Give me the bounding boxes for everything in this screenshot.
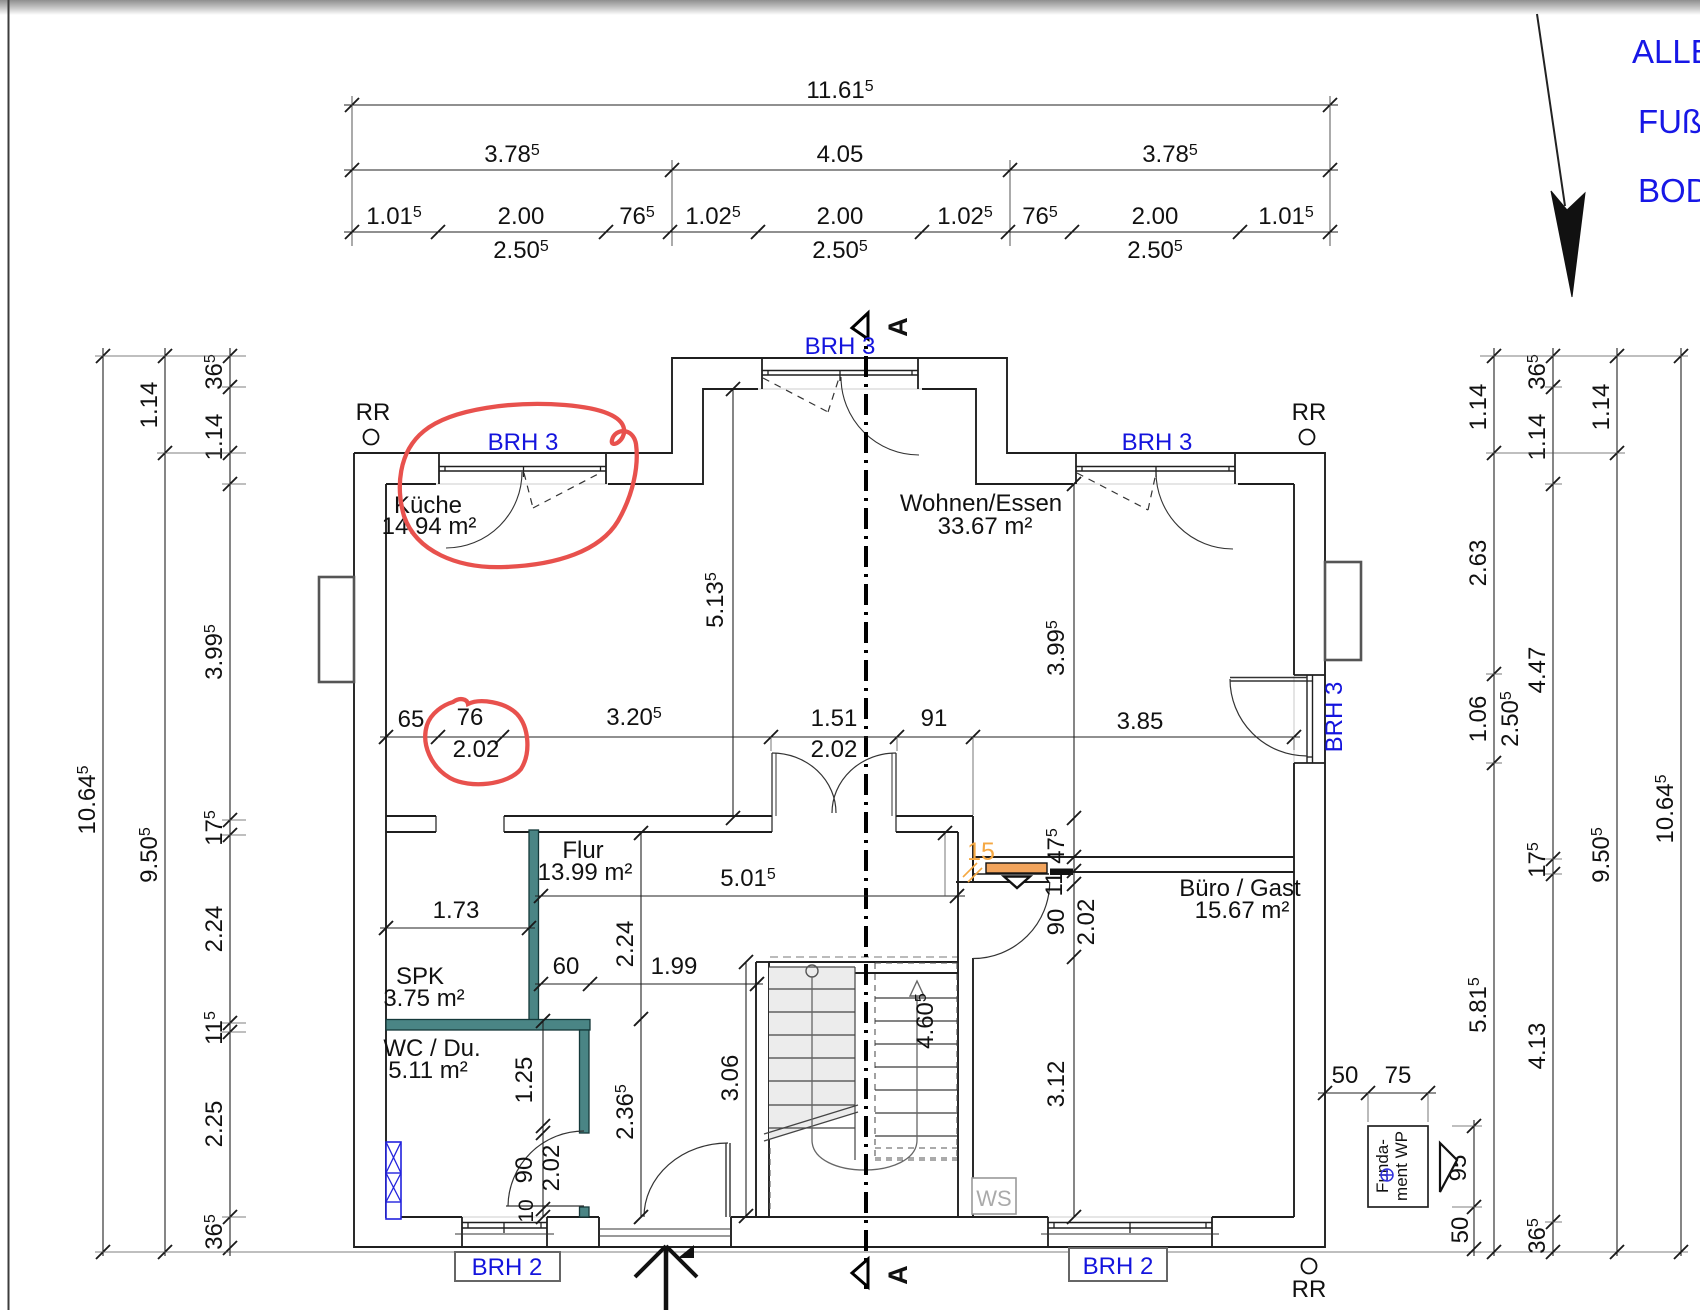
big north-ish arrow top right bbox=[1537, 14, 1565, 206]
WC door leaf + arc bbox=[506, 1205, 584, 1207]
inner face bottom wall segments bbox=[547, 1216, 599, 1218]
entrance threshold bbox=[598, 1217, 600, 1247]
svg-text:90: 90 bbox=[1043, 909, 1070, 936]
bay window tilt dashes bbox=[763, 378, 828, 412]
blue hatched element (radiator) bottom left bbox=[386, 1142, 401, 1219]
svg-text:BRH 3: BRH 3 bbox=[488, 429, 559, 456]
svg-text:65: 65 bbox=[398, 706, 425, 733]
svg-text:50: 50 bbox=[1447, 1217, 1474, 1244]
svg-text:1.99: 1.99 bbox=[651, 953, 698, 980]
svg-text:10.645: 10.645 bbox=[1652, 774, 1679, 843]
extension lines top bbox=[351, 96, 353, 246]
svg-text:75: 75 bbox=[1385, 1062, 1412, 1089]
dashed headroom line at stair top bbox=[770, 956, 957, 958]
top dimension chain row 2: 3.785 / 4.05 / 3.785 bbox=[344, 169, 1338, 171]
page left edge line bbox=[8, 0, 10, 1310]
label BRH2 right with box bbox=[1069, 1248, 1167, 1281]
svg-text:1.73: 1.73 bbox=[433, 897, 480, 924]
right chain F: 1.14/9.505 bbox=[1616, 348, 1618, 1256]
left extension stubs bbox=[95, 355, 246, 357]
svg-text:4.13: 4.13 bbox=[1524, 1023, 1551, 1070]
orange new wall bar bbox=[986, 863, 1047, 873]
svg-text:2.02: 2.02 bbox=[1073, 899, 1100, 946]
svg-text:BRH 2: BRH 2 bbox=[1083, 1253, 1154, 1280]
stair top wall bbox=[769, 961, 958, 963]
svg-text:2.00: 2.00 bbox=[1132, 203, 1179, 230]
foundation WP box bbox=[1368, 1126, 1428, 1207]
faint reveal lines across window openings bbox=[436, 483, 608, 485]
buero door leaf + arc (from hall) bbox=[956, 881, 1049, 883]
bay window turn arc bbox=[841, 377, 919, 455]
svg-text:13.99 m²: 13.99 m² bbox=[538, 859, 633, 886]
kitchen window turn arc bbox=[446, 472, 522, 548]
interior dim 60 / 1.99 bbox=[535, 983, 763, 985]
open triangle marker below orange bar bbox=[1004, 877, 1030, 889]
interior dim row y=737 bbox=[380, 736, 1300, 738]
svg-text:2.02: 2.02 bbox=[453, 736, 500, 763]
svg-text:90: 90 bbox=[511, 1157, 538, 1184]
window BRH2 left (bottom wall, WC) bbox=[461, 1217, 463, 1247]
left chain: segment dims bbox=[229, 348, 231, 1256]
svg-text:A: A bbox=[883, 317, 913, 337]
svg-text:2.25: 2.25 bbox=[201, 1101, 228, 1148]
window BRH2 right (bottom wall, Buero) bbox=[1047, 1217, 1049, 1247]
section line A-A bbox=[864, 318, 868, 1290]
stairs right flight (dashed, above) bbox=[874, 963, 876, 1160]
svg-text:BRH 3: BRH 3 bbox=[1321, 682, 1348, 753]
black lintel piece 11 bbox=[1050, 869, 1073, 876]
svg-text:2.24: 2.24 bbox=[201, 906, 228, 953]
wohnen window tilt dashes bbox=[1077, 473, 1148, 510]
entrance door leaf + arc bbox=[725, 1143, 727, 1217]
below break dashed edge bbox=[769, 1148, 771, 1214]
svg-text:1.06: 1.06 bbox=[1465, 696, 1492, 743]
right extension stubs bbox=[1480, 355, 1688, 357]
stair break line (double diagonal) bbox=[764, 1105, 858, 1134]
svg-text:60: 60 bbox=[553, 953, 580, 980]
wall Wohnen/Buero bbox=[973, 856, 1294, 858]
svg-text:15: 15 bbox=[967, 838, 995, 866]
wohnen window turn arc bbox=[1156, 472, 1233, 549]
section marker bottom (triangle + A) bbox=[852, 1259, 868, 1287]
svg-text:FUßBO: FUßBO bbox=[1638, 103, 1700, 140]
french door BRH3 (right wall) bbox=[1294, 674, 1325, 676]
svg-text:3.12: 3.12 bbox=[1043, 1061, 1070, 1108]
svg-text:11.615: 11.615 bbox=[806, 77, 873, 104]
svg-text:Funda-ment WP: Funda-ment WP bbox=[1373, 1131, 1411, 1201]
svg-text:10.645: 10.645 bbox=[74, 765, 101, 834]
WS box bbox=[972, 1178, 1016, 1214]
svg-text:BRH 3: BRH 3 bbox=[1122, 429, 1193, 456]
svg-text:33.67 m²: 33.67 m² bbox=[938, 513, 1033, 540]
stair/hall wall vertical (right of Flur) bbox=[957, 832, 959, 1217]
svg-text:2.24: 2.24 bbox=[612, 921, 639, 968]
svg-text:RR: RR bbox=[1292, 1276, 1327, 1303]
svg-text:BRH 3: BRH 3 bbox=[805, 333, 876, 360]
svg-text:A: A bbox=[883, 1265, 913, 1285]
window BRH3 wohnen (top right wall) bbox=[1075, 453, 1077, 484]
blue circled plus symbol bbox=[1381, 1169, 1393, 1181]
svg-text:4.05: 4.05 bbox=[817, 141, 864, 168]
svg-text:BRH 2: BRH 2 bbox=[472, 1254, 543, 1281]
teal wall SPK/WC horizontal bbox=[386, 1020, 590, 1031]
inner face right wall segments bbox=[1293, 484, 1295, 1217]
svg-text:1.14: 1.14 bbox=[1588, 384, 1615, 431]
svg-text:4.47: 4.47 bbox=[1524, 647, 1551, 694]
open triangle marker next to 95 bbox=[1440, 1143, 1457, 1192]
svg-text:3.85: 3.85 bbox=[1117, 708, 1164, 735]
label BRH2 left with box bbox=[455, 1252, 560, 1281]
stair walk line with circle and U-turn arrow bbox=[806, 965, 818, 977]
svg-text:76: 76 bbox=[457, 704, 484, 731]
double door Flur/Wohnen bbox=[771, 816, 773, 832]
left chain: 1.14 / 9.505 bbox=[164, 348, 166, 1256]
interior dim 5.015 bbox=[535, 895, 965, 897]
svg-text:2.00: 2.00 bbox=[498, 203, 545, 230]
top dimension chain row 3 bbox=[344, 231, 1338, 233]
left chain: overall 10.645 bbox=[102, 348, 104, 1256]
french door leaf + arc bbox=[1230, 677, 1307, 679]
svg-text:50: 50 bbox=[1332, 1062, 1359, 1089]
teal wall WC/hall vertical bbox=[580, 1030, 590, 1133]
right chain D: 1.14/2.63/1.06/5.815 bbox=[1493, 348, 1495, 1256]
svg-text:WS: WS bbox=[976, 1186, 1011, 1211]
interior dim 5.135 (vertical x=733) bbox=[732, 389, 734, 818]
stairs left flight (grey) bbox=[769, 967, 855, 1139]
right sub-chain 95/50 near foundation bbox=[1473, 1120, 1475, 1256]
dim 50/75 for foundation bbox=[1318, 1092, 1436, 1094]
svg-text:RR: RR bbox=[1292, 399, 1327, 426]
svg-text:2.63: 2.63 bbox=[1465, 540, 1492, 587]
svg-text:2.00: 2.00 bbox=[817, 203, 864, 230]
teal wall Flur/SPK vertical bbox=[529, 830, 539, 1020]
exterior wall inner face, kitchen + left bbox=[386, 389, 1294, 484]
svg-text:1.51: 1.51 bbox=[811, 705, 858, 732]
entrance arrow bbox=[664, 1247, 669, 1310]
right chimney block bbox=[1325, 562, 1361, 660]
svg-text:1.14: 1.14 bbox=[136, 382, 163, 429]
exterior wall outline (outer face) bbox=[354, 358, 1325, 1247]
svg-text:ALLEN: ALLEN bbox=[1632, 33, 1700, 70]
section marker top (triangle + A) bbox=[852, 313, 868, 339]
interior dim 1.73 bbox=[380, 927, 535, 929]
left chimney block bbox=[319, 577, 354, 682]
top toolbar shadow gradient bbox=[0, 0, 1700, 15]
wall Kueche/Flur with openings bbox=[386, 815, 436, 817]
svg-text:15.67 m²: 15.67 m² bbox=[1195, 897, 1290, 924]
kitchen window tilt dashes bbox=[524, 473, 533, 508]
right chain E: segment dims bbox=[1552, 348, 1554, 1256]
window BRH3 bay (top middle) bbox=[761, 358, 763, 389]
window BRH3 kitchen (top left wall) bbox=[438, 453, 440, 484]
top dimension chain: overall 11.615 bbox=[344, 104, 1338, 106]
svg-text:2.02: 2.02 bbox=[538, 1145, 565, 1192]
svg-text:3.06: 3.06 bbox=[717, 1055, 744, 1102]
red hand-drawn circle around 76/2.02 dim bbox=[425, 699, 527, 784]
stairwell left wall bbox=[755, 962, 757, 1217]
svg-text:11: 11 bbox=[1041, 872, 1068, 897]
svg-text:BODE: BODE bbox=[1638, 172, 1700, 209]
interior dim 2.24 / 2.365 (vertical x=641) bbox=[640, 833, 642, 1217]
svg-text:2.02: 2.02 bbox=[811, 736, 858, 763]
svg-text:RR: RR bbox=[356, 399, 391, 426]
svg-text:91: 91 bbox=[921, 705, 948, 732]
svg-text:3.75 m²: 3.75 m² bbox=[383, 985, 464, 1012]
svg-text:14.94 m²: 14.94 m² bbox=[382, 513, 477, 540]
right chain G: overall 10.645 bbox=[1680, 348, 1682, 1256]
svg-text:10: 10 bbox=[515, 1199, 538, 1222]
interior dim chain x=1074: 3.995/475/11/90/3.12 bbox=[1073, 484, 1075, 1217]
svg-text:1.14: 1.14 bbox=[1465, 384, 1492, 431]
svg-text:5.11 m²: 5.11 m² bbox=[388, 1057, 468, 1084]
teal wall stub at bottom bbox=[580, 1207, 590, 1217]
RR marker bottom right bbox=[1302, 1259, 1317, 1274]
svg-text:1.25: 1.25 bbox=[511, 1057, 538, 1104]
interior dim 1.25/90/10 (vertical x=543) bbox=[542, 1021, 544, 1217]
interior dim 3.06 (vertical x=746) bbox=[745, 962, 747, 1216]
red hand-drawn circle around kitchen window bbox=[400, 404, 637, 567]
